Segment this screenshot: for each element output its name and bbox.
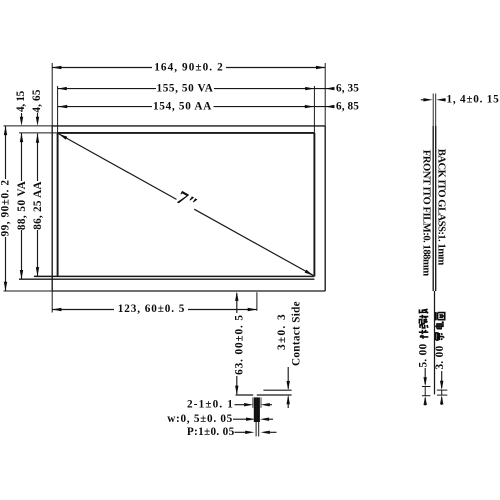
dim P:1±0.05	[235, 431, 248, 433]
side tail line	[434, 291, 436, 394]
dimension 63.00±0.5	[236, 293, 238, 313]
tail end edge	[236, 394, 254, 396]
dimension 123,60±0.5	[51, 291, 53, 313]
dimension 154,50 AA	[58, 106, 152, 108]
svg-text:3±0. 3: 3±0. 3	[276, 313, 288, 350]
svg-text:88, 50 VA: 88, 50 VA	[16, 181, 28, 230]
svg-text:155, 50 VA: 155, 50 VA	[157, 82, 214, 94]
VA bottom line + extension	[19, 278, 314, 280]
svg-text:154, 50 AA: 154, 50 AA	[153, 100, 212, 112]
svg-text:99, 90±0. 2: 99, 90±0. 2	[0, 180, 12, 237]
pin traces detail	[254, 397, 260, 422]
svg-text:2-1±0. 1: 2-1±0. 1	[187, 398, 234, 410]
svg-text:4, 15: 4, 15	[15, 90, 27, 112]
dimension 4,65	[37, 113, 39, 118]
dimension 4,15	[21, 113, 23, 118]
svg-text:6, 35: 6, 35	[336, 82, 359, 94]
svg-text:w:0, 5±0. 05: w:0, 5±0. 05	[167, 413, 233, 425]
svg-text:123, 60±0. 5: 123, 60±0. 5	[118, 303, 186, 315]
svg-text:FRONT ITO FILM:0. 188mm: FRONT ITO FILM:0. 188mm	[421, 150, 432, 277]
diagonal 7 inch	[59, 134, 177, 200]
dimension 88,50 VA	[21, 133, 23, 181]
pin width ticks	[252, 397, 254, 408]
dimension 99,90±0.2	[4, 125, 53, 127]
VA top extension	[19, 132, 58, 134]
dim 2-1±0.1	[235, 404, 248, 406]
dim w:0,5±0.05	[233, 418, 249, 420]
svg-text:6, 85: 6, 85	[336, 100, 359, 112]
dimension 1,4±0.15	[421, 99, 425, 101]
dimension 3±0.3	[287, 367, 289, 389]
dimension 155,50 VA	[57, 86, 59, 133]
svg-text:63. 00±0. 5: 63. 00±0. 5	[234, 314, 246, 375]
svg-text:164, 90±0. 2: 164, 90±0. 2	[154, 61, 224, 73]
svg-text:86, 25 AA: 86, 25 AA	[32, 181, 44, 229]
svg-text:3. 00: 3. 00	[434, 345, 446, 369]
outer glass outline top	[52, 125, 325, 127]
svg-text:Contact Side: Contact Side	[291, 301, 303, 366]
svg-text:BACK ITO GLASS:1. 1mm: BACK ITO GLASS:1. 1mm	[435, 149, 446, 266]
svg-text:P:1±0. 05: P:1±0. 05	[187, 426, 235, 438]
svg-text:5. 00: 5. 00	[418, 343, 430, 367]
dimension 86,25 AA	[37, 134, 39, 181]
svg-text:1, 4±0. 15: 1, 4±0. 15	[447, 94, 500, 106]
dimension 164,90±0.2	[51, 63, 53, 126]
tail end contact boundary	[263, 389, 291, 391]
view area inner rectangle	[58, 132, 315, 134]
dimension 6,85	[314, 106, 335, 108]
side section stack	[432, 94, 434, 126]
dimension 6,35	[314, 88, 334, 90]
svg-text:7″: 7″	[173, 187, 202, 216]
svg-text:4, 65: 4, 65	[31, 89, 43, 112]
